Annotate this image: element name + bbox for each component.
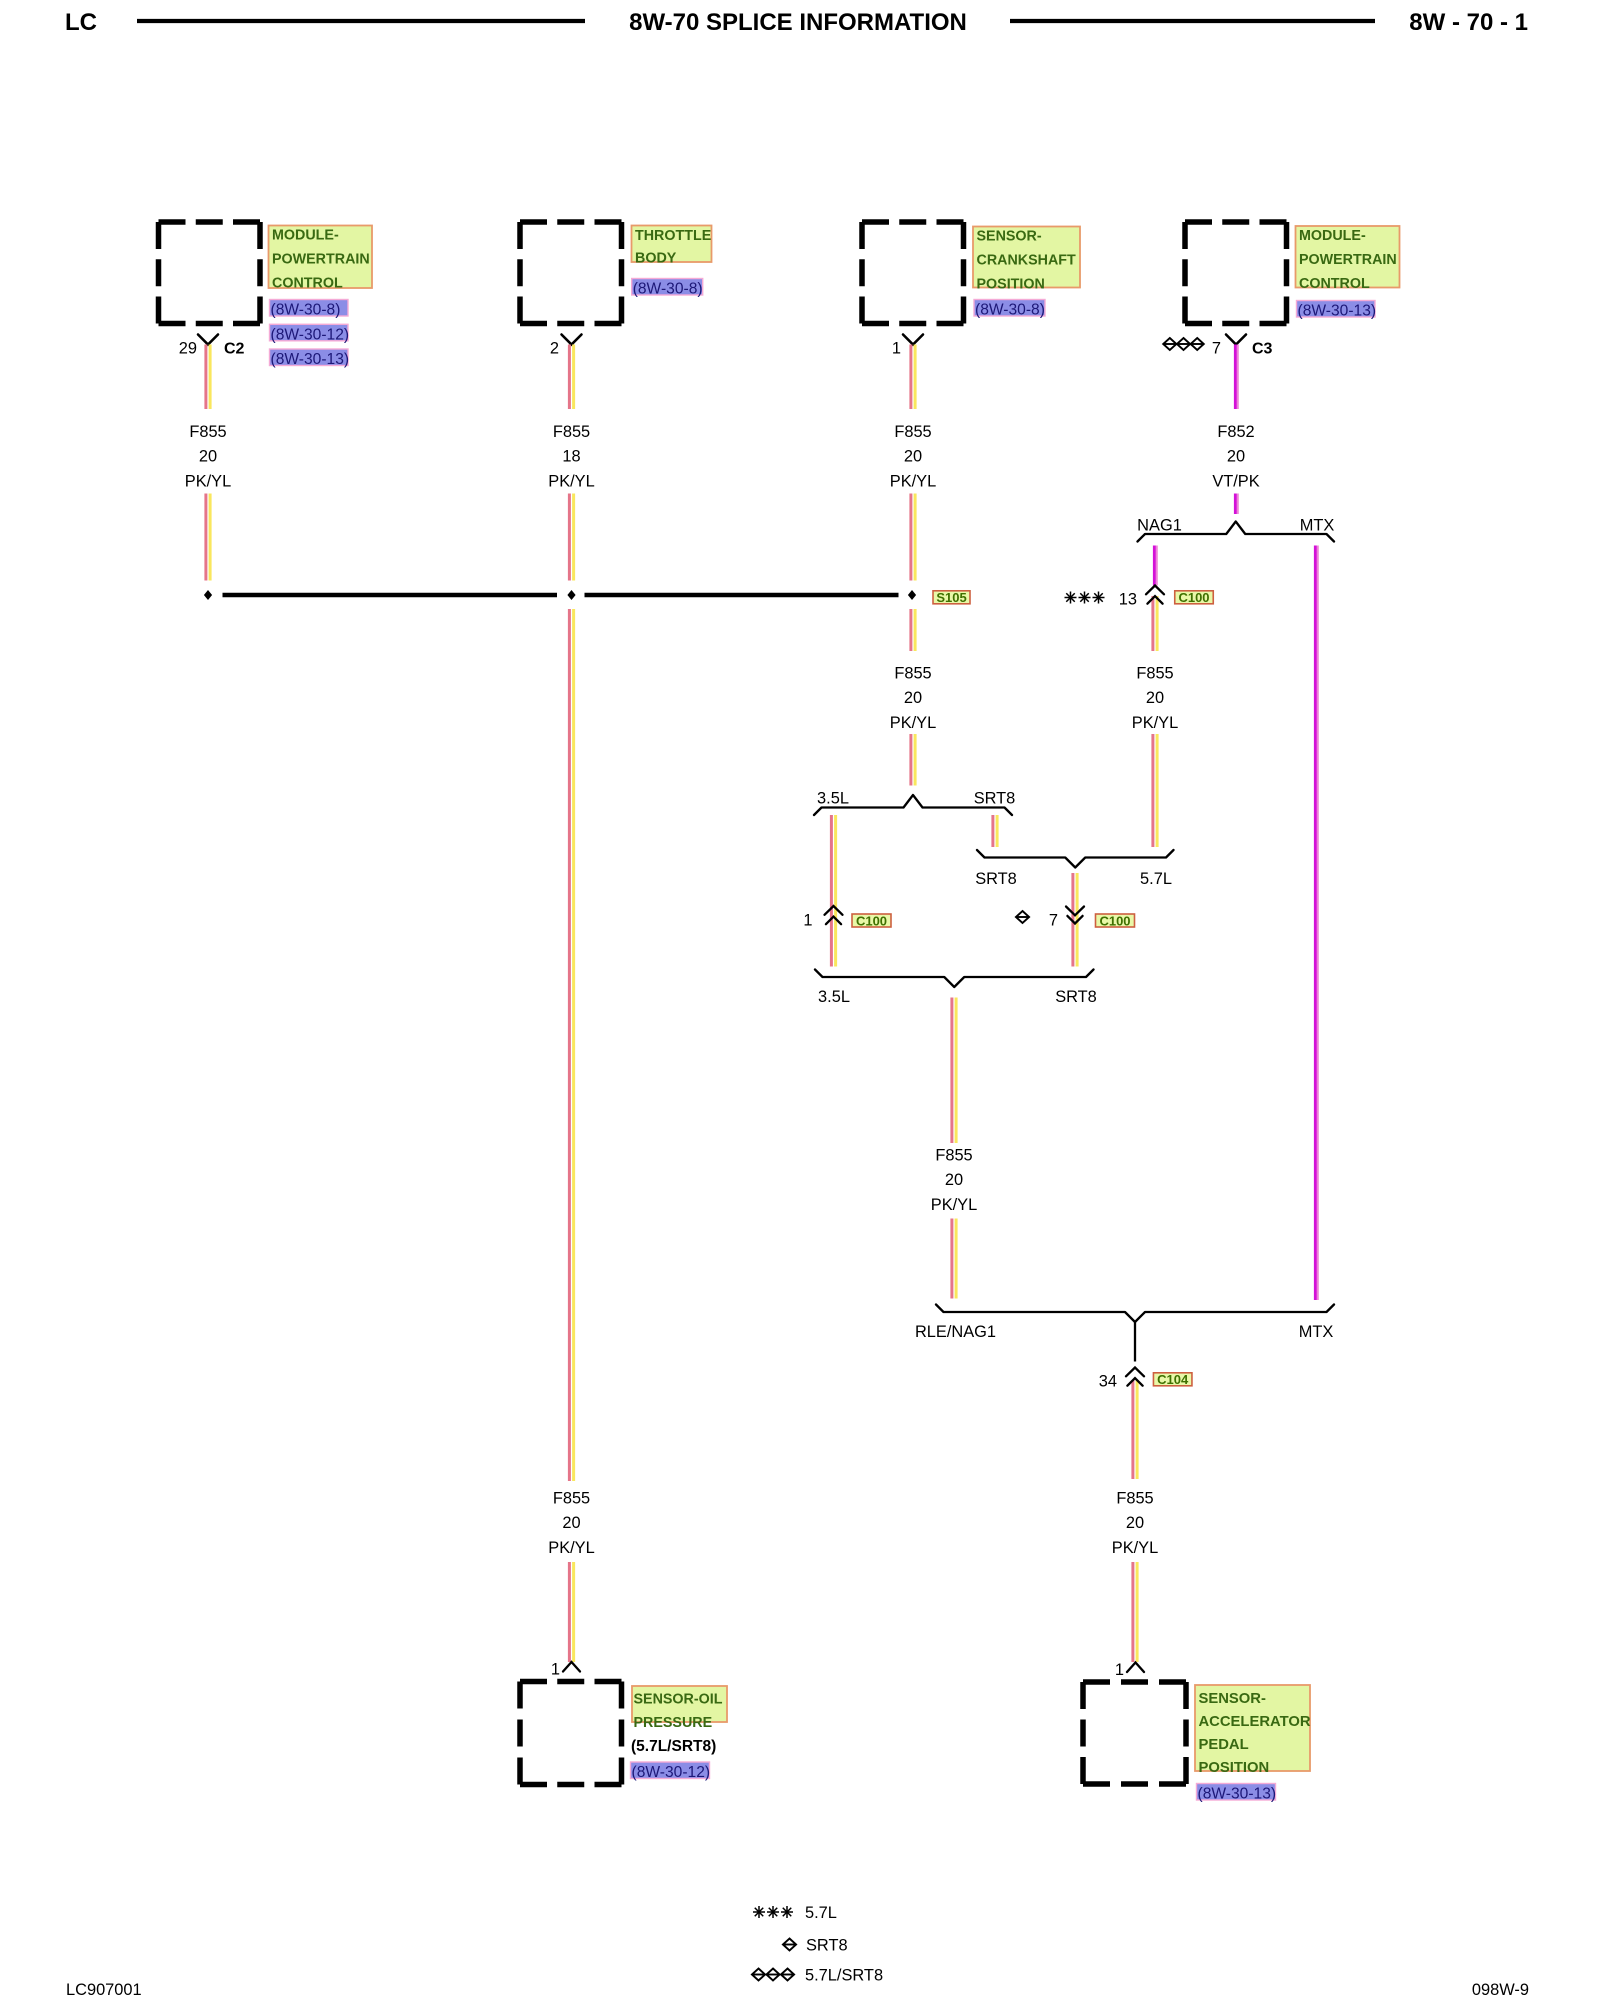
svg-text:1: 1 bbox=[803, 912, 812, 930]
label THROTTLE BODY bbox=[632, 226, 712, 267]
wire F855 to RLE/NAG1-MTX merge bbox=[952, 1219, 956, 1299]
svg-text:PK/YL: PK/YL bbox=[1112, 1539, 1158, 1557]
connector symbol (oil pressure sensor pin 1) bbox=[563, 1662, 580, 1672]
splice S105 label bbox=[933, 590, 970, 605]
svg-text:MTX: MTX bbox=[1300, 517, 1335, 535]
component box: sensor-accelerator pedal position bbox=[1083, 1682, 1186, 1784]
svg-text:8W - 70 - 1: 8W - 70 - 1 bbox=[1409, 9, 1528, 36]
svg-text:7: 7 bbox=[1049, 912, 1058, 930]
svg-text:(8W-30-12): (8W-30-12) bbox=[632, 1764, 711, 1781]
component box: throttle body bbox=[520, 222, 622, 324]
connector C100 label bbox=[852, 913, 891, 928]
svg-text:CRANKSHAFT: CRANKSHAFT bbox=[977, 253, 1077, 269]
svg-text:34: 34 bbox=[1099, 1373, 1117, 1391]
svg-text:F855: F855 bbox=[894, 423, 931, 441]
ref (8W-30-13) bbox=[1297, 301, 1377, 320]
wire VT/PK MTX branch (long) bbox=[1315, 546, 1317, 1301]
svg-text:CONTROL: CONTROL bbox=[272, 276, 343, 292]
svg-text:(5.7L/SRT8): (5.7L/SRT8) bbox=[631, 1738, 716, 1755]
svg-text:7: 7 bbox=[1212, 340, 1221, 358]
label SENSOR-ACCELERATOR PEDAL POSITION bbox=[1195, 1685, 1311, 1776]
merge bracket SRT8/5.7L bbox=[977, 850, 1174, 868]
svg-text:LC: LC bbox=[65, 9, 97, 36]
branch bracket 3.5L/SRT8 bbox=[814, 795, 1012, 815]
ref (8W-30-13) bbox=[1197, 1784, 1277, 1803]
connector C104 label bbox=[1153, 1372, 1192, 1387]
svg-text:SENSOR-: SENSOR- bbox=[1199, 1691, 1266, 1707]
svg-text:F855: F855 bbox=[894, 665, 931, 683]
wire F855 below SRT8/5.7L merge bbox=[1073, 873, 1077, 967]
svg-text:13: 13 bbox=[1119, 591, 1137, 609]
svg-text:(8W-30-8): (8W-30-8) bbox=[975, 302, 1045, 319]
wire F855 below merge bbox=[952, 998, 956, 1144]
label SENSOR-OIL PRESSURE bbox=[632, 1686, 727, 1731]
connector C3 symbol bbox=[1226, 335, 1246, 345]
svg-text:MTX: MTX bbox=[1299, 1323, 1334, 1341]
svg-text:5.7L/SRT8: 5.7L/SRT8 bbox=[805, 1967, 883, 1985]
svg-text:20: 20 bbox=[199, 448, 217, 466]
svg-text:29: 29 bbox=[179, 340, 197, 358]
svg-text:20: 20 bbox=[904, 448, 922, 466]
svg-text:8W-70 SPLICE INFORMATION: 8W-70 SPLICE INFORMATION bbox=[629, 9, 967, 36]
svg-text:5.7L: 5.7L bbox=[805, 1904, 837, 1922]
svg-text:F855: F855 bbox=[1116, 1490, 1153, 1508]
svg-text:PRESSURE: PRESSURE bbox=[634, 1715, 713, 1731]
svg-text:20: 20 bbox=[1227, 448, 1245, 466]
legend: one diamond = SRT8 bbox=[783, 1939, 796, 1951]
svg-text:1: 1 bbox=[551, 1661, 560, 1679]
svg-text:PEDAL: PEDAL bbox=[1199, 1737, 1249, 1753]
svg-text:F855: F855 bbox=[935, 1147, 972, 1165]
wire F852 stub to branch bbox=[1235, 494, 1237, 515]
branch bracket NAG1/MTX bbox=[1138, 522, 1335, 542]
marker: three diamonds (5.7L/SRT8) bbox=[1163, 338, 1204, 350]
ref (8W-30-8) bbox=[270, 300, 349, 319]
svg-text:PK/YL: PK/YL bbox=[931, 1196, 977, 1214]
legend: three asterisks = 5.7L bbox=[753, 1906, 793, 1918]
component box: sensor-crankshaft position bbox=[862, 222, 964, 324]
wire F855 from crankshaft sensor bbox=[911, 345, 915, 410]
wire label F855 20 PK/YL bbox=[890, 423, 936, 490]
svg-text:POSITION: POSITION bbox=[977, 277, 1045, 293]
svg-text:RLE/NAG1: RLE/NAG1 bbox=[915, 1323, 996, 1341]
junction at C2 wire bbox=[204, 590, 212, 600]
svg-text:MODULE-: MODULE- bbox=[272, 228, 339, 244]
svg-text:C100: C100 bbox=[856, 913, 887, 928]
label SENSOR-CRANKSHAFT POSITION bbox=[973, 227, 1080, 293]
wire label F855 20 PK/YL bbox=[185, 423, 231, 490]
svg-text:C3: C3 bbox=[1252, 341, 1273, 358]
svg-text:POWERTRAIN: POWERTRAIN bbox=[1299, 252, 1397, 268]
legend: three diamonds = 5.7L/SRT8 bbox=[752, 1969, 794, 1981]
svg-text:F852: F852 bbox=[1217, 423, 1254, 441]
wire VT/PK NAG1 branch bbox=[1154, 546, 1156, 586]
wire F855 to splice S105 bbox=[206, 494, 210, 581]
wire F855 3.5L branch bbox=[831, 815, 835, 967]
svg-text:1: 1 bbox=[892, 340, 901, 358]
label MODULE-POWERTRAIN CONTROL bbox=[1296, 226, 1400, 292]
svg-text:C100: C100 bbox=[1178, 590, 1209, 605]
connector C100 pin 13 symbol bbox=[1146, 586, 1164, 604]
svg-text:18: 18 bbox=[562, 448, 580, 466]
junction at throttle body wire bbox=[567, 590, 575, 600]
label MODULE-POWERTRAIN CONTROL bbox=[269, 226, 373, 292]
splice S105 bus line bbox=[223, 593, 899, 598]
svg-text:20: 20 bbox=[562, 1514, 580, 1532]
svg-text:20: 20 bbox=[1146, 689, 1164, 707]
wire F855 below C100 pin 13 bbox=[1153, 596, 1157, 651]
ref (8W-30-8) bbox=[632, 279, 703, 298]
svg-text:THROTTLE: THROTTLE bbox=[635, 228, 711, 244]
wire F855 to SRT8/5.7L merge bbox=[1153, 734, 1157, 847]
wire F855 below C104 bbox=[1133, 1380, 1137, 1479]
svg-text:20: 20 bbox=[945, 1171, 963, 1189]
svg-text:(8W-30-8): (8W-30-8) bbox=[271, 302, 341, 319]
svg-text:POSITION: POSITION bbox=[1199, 1760, 1270, 1776]
svg-text:LC907001: LC907001 bbox=[66, 1981, 142, 1999]
svg-text:ACCELERATOR: ACCELERATOR bbox=[1199, 1714, 1311, 1730]
connector C104 pin 34 symbol bbox=[1126, 1368, 1144, 1386]
connector symbol (crankshaft sensor pin 1) bbox=[903, 335, 923, 345]
component box: module-powertrain control (left) bbox=[159, 222, 261, 324]
svg-text:NAG1: NAG1 bbox=[1137, 517, 1182, 535]
svg-text:C104: C104 bbox=[1157, 1372, 1189, 1387]
svg-text:S105: S105 bbox=[936, 590, 966, 605]
wire F855 to accelerator pedal sensor bbox=[1133, 1562, 1137, 1662]
wire label F855 20 PK/YL bbox=[931, 1147, 977, 1214]
svg-text:SENSOR-OIL: SENSOR-OIL bbox=[634, 1692, 723, 1708]
ref (8W-30-12) bbox=[270, 324, 350, 343]
svg-text:SRT8: SRT8 bbox=[975, 870, 1017, 888]
junction at crankshaft sensor wire bbox=[908, 590, 916, 600]
svg-text:PK/YL: PK/YL bbox=[890, 472, 936, 490]
svg-text:PK/YL: PK/YL bbox=[185, 472, 231, 490]
link line to C104 bbox=[1134, 1322, 1136, 1362]
svg-text:3.5L: 3.5L bbox=[818, 988, 850, 1006]
svg-text:MODULE-: MODULE- bbox=[1299, 228, 1366, 244]
ref (8W-30-12) bbox=[631, 1762, 711, 1781]
svg-text:VT/PK: VT/PK bbox=[1212, 472, 1259, 490]
connector symbol (accelerator pedal sensor pin 1) bbox=[1127, 1663, 1144, 1673]
connector C100 label bbox=[1096, 913, 1135, 928]
wire label F855 20 PK/YL bbox=[1132, 665, 1178, 732]
wire F855 to oil pressure sensor bbox=[569, 1562, 573, 1662]
wire F855 from throttle body bbox=[569, 345, 573, 410]
header rule left bbox=[137, 19, 585, 23]
svg-text:CONTROL: CONTROL bbox=[1299, 276, 1370, 292]
component box: module-powertrain control (right) bbox=[1185, 222, 1287, 324]
marker: one diamond (SRT8) bbox=[1016, 911, 1029, 923]
svg-text:5.7L: 5.7L bbox=[1140, 870, 1172, 888]
svg-text:BODY: BODY bbox=[635, 251, 677, 267]
svg-text:20: 20 bbox=[1126, 1514, 1144, 1532]
wire F852 from C3 bbox=[1235, 345, 1237, 410]
marker: three asterisks (5.7L) bbox=[1065, 592, 1105, 604]
svg-text:(8W-30-13): (8W-30-13) bbox=[1298, 303, 1377, 320]
svg-text:(8W-30-13): (8W-30-13) bbox=[271, 351, 350, 368]
wire F855 to splice S105 bbox=[911, 494, 915, 581]
wire label F855 20 PK/YL bbox=[548, 1490, 594, 1557]
svg-text:3.5L: 3.5L bbox=[817, 790, 849, 808]
header rule right bbox=[1010, 19, 1375, 23]
svg-text:1: 1 bbox=[1115, 1661, 1124, 1679]
svg-text:F855: F855 bbox=[553, 423, 590, 441]
ref (8W-30-13) bbox=[270, 349, 350, 368]
component box: sensor-oil pressure bbox=[520, 1682, 622, 1785]
svg-text:(8W-30-8): (8W-30-8) bbox=[633, 281, 703, 298]
svg-text:F855: F855 bbox=[189, 423, 226, 441]
ref (8W-30-8) bbox=[974, 300, 1045, 319]
connector C100 pin 1 symbol bbox=[825, 906, 843, 924]
svg-text:098W-9: 098W-9 bbox=[1472, 1981, 1529, 1999]
connector C2 symbol bbox=[198, 335, 218, 345]
wire label F852 20 VT/PK bbox=[1212, 423, 1259, 490]
wire F855 SRT8 branch bbox=[993, 815, 997, 847]
merge bracket 3.5L/SRT8 bbox=[815, 970, 1094, 988]
svg-text:POWERTRAIN: POWERTRAIN bbox=[272, 252, 370, 268]
connector C100 label bbox=[1175, 590, 1214, 605]
svg-text:C100: C100 bbox=[1099, 913, 1130, 928]
wire F855 from C2 bbox=[206, 345, 210, 410]
svg-text:20: 20 bbox=[904, 689, 922, 707]
svg-text:SENSOR-: SENSOR- bbox=[977, 229, 1042, 245]
merge bracket RLE/NAG1 - MTX bbox=[936, 1305, 1334, 1323]
svg-text:C2: C2 bbox=[224, 341, 245, 358]
svg-text:SRT8: SRT8 bbox=[974, 790, 1016, 808]
wire F855 below S105 bbox=[911, 609, 915, 651]
connector symbol (throttle body pin 2) bbox=[562, 335, 582, 345]
svg-text:F855: F855 bbox=[553, 1490, 590, 1508]
wire F855 to 3.5L/SRT8 split bbox=[911, 734, 915, 786]
svg-text:(8W-30-12): (8W-30-12) bbox=[271, 326, 350, 343]
wire label F855 20 PK/YL bbox=[890, 665, 936, 732]
svg-text:PK/YL: PK/YL bbox=[548, 472, 594, 490]
svg-text:PK/YL: PK/YL bbox=[548, 1539, 594, 1557]
connector C100 pin 7 symbol bbox=[1066, 907, 1084, 924]
wire label F855 18 PK/YL bbox=[548, 423, 594, 490]
svg-text:SRT8: SRT8 bbox=[806, 1937, 848, 1955]
svg-text:2: 2 bbox=[550, 340, 559, 358]
svg-text:F855: F855 bbox=[1136, 665, 1173, 683]
svg-text:SRT8: SRT8 bbox=[1055, 988, 1097, 1006]
wire label F855 20 PK/YL bbox=[1112, 1490, 1158, 1557]
wire F855 long run to oil pressure sensor bbox=[569, 609, 573, 1481]
svg-text:(8W-30-13): (8W-30-13) bbox=[1198, 1786, 1277, 1803]
svg-text:PK/YL: PK/YL bbox=[1132, 714, 1178, 732]
svg-text:PK/YL: PK/YL bbox=[890, 714, 936, 732]
wire F855 to splice S105 bbox=[569, 494, 573, 581]
